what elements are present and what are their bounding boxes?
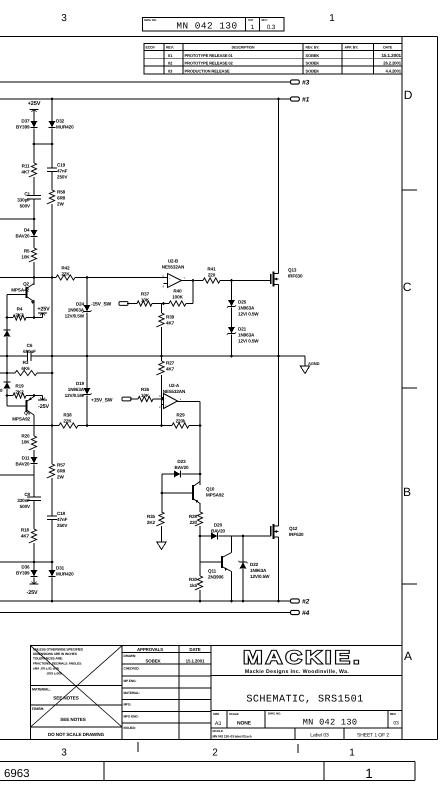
svg-text:±NA .XX ±.01 ±NA: ±NA .XX ±.01 ±NA (33, 667, 60, 671)
svg-text:D: D (404, 88, 413, 102)
svg-text:10K: 10K (21, 440, 30, 445)
svg-text:1N963A: 1N963A (250, 568, 267, 573)
svg-text:AGND: AGND (308, 361, 320, 366)
svg-text:1N963A: 1N963A (238, 333, 255, 338)
svg-text:-25V: -25V (38, 404, 49, 410)
svg-text:Q11: Q11 (208, 569, 217, 574)
svg-text:R40: R40 (173, 289, 182, 294)
svg-text:-: - (169, 283, 170, 287)
svg-text:2K2: 2K2 (15, 390, 24, 395)
svg-text:A3: A3 (215, 721, 221, 727)
svg-text:SHEET 1 OF 2: SHEET 1 OF 2 (357, 733, 389, 739)
svg-text:01: 01 (168, 53, 173, 58)
svg-text:15.1.2001: 15.1.2001 (381, 53, 401, 58)
svg-text:NONE: NONE (237, 721, 252, 727)
svg-text:DATE: DATE (189, 647, 200, 652)
svg-text:REV:: REV: (262, 18, 268, 22)
svg-text:330pF: 330pF (17, 198, 30, 203)
svg-text:DATE: DATE (383, 46, 393, 50)
svg-text:R29: R29 (176, 413, 185, 418)
svg-text:D36: D36 (21, 565, 30, 570)
svg-text:MN 042 130–03 label 03.sch: MN 042 130–03 label 03.sch (213, 735, 252, 739)
svg-text:220: 220 (190, 520, 198, 525)
svg-text:220: 220 (208, 273, 216, 278)
svg-text:R36: R36 (141, 387, 150, 392)
svg-text:TOLERANCES ARE:: TOLERANCES ARE: (33, 656, 63, 660)
svg-text:2K2: 2K2 (147, 520, 156, 525)
svg-text:+: + (165, 404, 167, 408)
svg-text:R5: R5 (24, 249, 30, 254)
svg-text:22K: 22K (63, 419, 72, 424)
svg-text:PROTOTYPE RELEASE 01: PROTOTYPE RELEASE 01 (185, 53, 234, 58)
svg-text:2N3906: 2N3906 (208, 575, 224, 580)
svg-text:R20: R20 (21, 434, 30, 439)
svg-text:3: 3 (159, 394, 161, 398)
svg-text:MUR420: MUR420 (56, 572, 74, 577)
svg-text:C: C (403, 280, 412, 294)
svg-text:10K: 10K (141, 393, 150, 398)
svg-text:PROTOTYPE RELEASE 02: PROTOTYPE RELEASE 02 (185, 61, 234, 66)
svg-text:FRACTIONS: DECIMALS: ANGL: FRACTIONS: DECIMALS: ANGLES: (33, 662, 82, 666)
svg-text:C8: C8 (24, 492, 30, 497)
svg-text:D19: D19 (76, 381, 85, 386)
svg-text:SOBEK: SOBEK (145, 659, 161, 664)
svg-text:03: 03 (168, 68, 173, 73)
svg-text:SEE NOTES: SEE NOTES (53, 696, 78, 701)
svg-text:10K: 10K (141, 298, 150, 303)
svg-text:IRF630: IRF630 (289, 532, 304, 537)
svg-text:BY399: BY399 (16, 125, 30, 130)
svg-text:D20: D20 (214, 523, 223, 528)
svg-text:REV. BY:: REV. BY: (306, 46, 320, 50)
svg-text:A: A (404, 649, 412, 663)
svg-text:4K7: 4K7 (166, 367, 175, 372)
svg-text:1: 1 (349, 748, 355, 759)
svg-text:SCHEMATIC, SRS1501: SCHEMATIC, SRS1501 (246, 695, 363, 706)
svg-text:Q6: Q6 (24, 411, 30, 416)
svg-text:D24: D24 (76, 302, 85, 307)
svg-text:NE5532AN: NE5532AN (162, 265, 185, 270)
svg-text:+25V: +25V (28, 101, 41, 107)
svg-text:12V/0.5W: 12V/0.5W (65, 393, 85, 398)
svg-text:10K: 10K (21, 255, 30, 260)
svg-text:DO NOT SCALE DRAWING: DO NOT SCALE DRAWING (48, 732, 105, 737)
svg-text:R58: R58 (57, 190, 66, 195)
svg-text:#4: #4 (302, 610, 310, 617)
svg-text:MPSA92: MPSA92 (206, 493, 224, 498)
svg-text:0.3: 0.3 (267, 24, 276, 31)
svg-text:3: 3 (61, 13, 67, 24)
svg-text:R4: R4 (17, 307, 23, 312)
svg-text:MP ENG:: MP ENG: (124, 679, 137, 683)
svg-text:R11: R11 (22, 164, 30, 169)
svg-text:PRODUCTION RELEASE: PRODUCTION RELEASE (185, 68, 231, 73)
svg-text:6963: 6963 (4, 768, 30, 780)
svg-text:12V/0.5W: 12V/0.5W (250, 574, 270, 579)
svg-text:2: 2 (212, 748, 218, 759)
svg-text:REV.: REV. (390, 712, 396, 716)
svg-text:C1: C1 (24, 192, 30, 197)
svg-text:22K: 22K (61, 272, 70, 277)
svg-text:SOBEK: SOBEK (306, 68, 320, 73)
svg-text:BY399: BY399 (16, 571, 30, 576)
svg-text:REV:: REV: (166, 46, 174, 50)
svg-text:MPSA92: MPSA92 (12, 417, 30, 422)
svg-text:MN 042 130: MN 042 130 (303, 718, 358, 728)
svg-text:R27: R27 (166, 361, 175, 366)
svg-text:500V: 500V (20, 204, 31, 209)
svg-text:2: 2 (159, 405, 161, 409)
svg-text:D32: D32 (56, 119, 65, 124)
svg-text:680pF: 680pF (23, 349, 36, 354)
svg-text:1: 1 (180, 397, 182, 401)
svg-text:C18: C18 (57, 511, 66, 516)
svg-text:DIMENSIONS ARE IN INCHES: DIMENSIONS ARE IN INCHES (33, 652, 78, 656)
svg-text:MFG:: MFG: (124, 703, 132, 707)
svg-text:BAV20: BAV20 (16, 462, 31, 467)
svg-text:R3: R3 (23, 360, 29, 365)
svg-text:330nF: 330nF (17, 498, 30, 503)
svg-text:ECO#: ECO# (146, 46, 155, 50)
svg-text:DESCRIPTION: DESCRIPTION (232, 46, 255, 50)
svg-text:MATERIAL:: MATERIAL: (32, 688, 51, 692)
svg-text:Mackie Designs Inc. Woodinvi: Mackie Designs Inc. Woodinville, Wa. (245, 669, 349, 675)
svg-text:MATERIAL:: MATERIAL: (124, 691, 140, 695)
svg-text:+25V: +25V (37, 307, 50, 313)
svg-text:R19: R19 (15, 384, 24, 389)
svg-text:250V: 250V (57, 175, 68, 180)
svg-text:Label 03: Label 03 (310, 733, 329, 739)
svg-text:SEE NOTES: SEE NOTES (60, 717, 85, 722)
svg-text:UNLESS OTHERWISE SPECIFIED: UNLESS OTHERWISE SPECIFIED (33, 648, 84, 652)
svg-text:500V: 500V (20, 504, 31, 509)
svg-text:Q10: Q10 (206, 487, 215, 492)
svg-text:-: - (165, 396, 166, 400)
svg-text:0: 0 (0, 388, 3, 393)
svg-text:D11: D11 (22, 456, 30, 461)
svg-text:BAV20: BAV20 (175, 465, 190, 470)
svg-text:03: 03 (393, 721, 399, 727)
svg-text:4.4.2001: 4.4.2001 (385, 68, 401, 73)
svg-text:4K7: 4K7 (166, 321, 175, 326)
svg-text:#3: #3 (302, 80, 310, 87)
svg-text:1k5: 1k5 (190, 583, 198, 588)
svg-text:D22: D22 (250, 562, 259, 567)
svg-text:220k: 220k (176, 419, 186, 424)
svg-text:DRAWN:: DRAWN: (124, 654, 137, 658)
svg-text:BAV20: BAV20 (16, 234, 31, 239)
svg-text:Q2: Q2 (23, 282, 29, 287)
svg-text:#1: #1 (302, 97, 310, 104)
svg-text:SCALE:: SCALE: (229, 712, 239, 716)
svg-text:IRF630: IRF630 (288, 274, 303, 279)
svg-text:4K7: 4K7 (21, 170, 30, 175)
svg-text:1: 1 (365, 766, 372, 781)
svg-text:U2-A: U2-A (169, 383, 180, 388)
svg-text:MFG ENG:: MFG ENG: (124, 715, 139, 719)
svg-text:#2: #2 (302, 599, 310, 606)
svg-text:R38: R38 (63, 413, 72, 418)
svg-text:NE5532AN: NE5532AN (163, 389, 186, 394)
svg-text:B: B (403, 485, 411, 499)
svg-text:SHT: SHT (248, 18, 254, 22)
svg-text:2K2: 2K2 (15, 313, 24, 318)
svg-text:BAV20: BAV20 (211, 529, 226, 534)
svg-text:R39: R39 (166, 315, 175, 320)
svg-text:12V/ 0.5W: 12V/ 0.5W (238, 339, 259, 344)
svg-text:Q13: Q13 (288, 268, 297, 273)
svg-text:1N963A: 1N963A (68, 387, 85, 392)
svg-text:02: 02 (168, 61, 173, 66)
svg-text:12V/ 0.5W: 12V/ 0.5W (238, 312, 259, 317)
svg-text:D25: D25 (238, 300, 247, 305)
svg-text:SIZE: SIZE (213, 712, 219, 716)
svg-text:47nF: 47nF (57, 169, 68, 174)
svg-text:SOBEK: SOBEK (306, 61, 320, 66)
svg-text:APP. BY:: APP. BY: (345, 46, 359, 50)
svg-text:R18: R18 (21, 528, 30, 533)
svg-text:R42: R42 (61, 266, 70, 271)
svg-text:6K6: 6K6 (21, 366, 30, 371)
svg-text:R57: R57 (57, 463, 66, 468)
svg-text:-15V_SW: -15V_SW (91, 302, 111, 308)
svg-text:15.1.2001: 15.1.2001 (186, 659, 205, 664)
svg-text:MPSA42: MPSA42 (11, 288, 29, 293)
svg-text:250V: 250V (57, 523, 68, 528)
svg-text:7: 7 (184, 276, 186, 280)
svg-text:R30: R30 (189, 577, 198, 582)
svg-text:DWG. NO.: DWG. NO. (144, 18, 157, 22)
svg-text:.XXX ±.005: .XXX ±.005 (46, 672, 62, 676)
svg-text:1N963A: 1N963A (238, 306, 255, 311)
svg-text:26.2.2001: 26.2.2001 (383, 61, 402, 66)
svg-text:1: 1 (251, 24, 255, 31)
svg-text:+: + (169, 276, 171, 280)
svg-text:MN FILE:: MN FILE: (213, 730, 224, 733)
svg-text:C6: C6 (27, 343, 33, 348)
svg-text:D31: D31 (56, 566, 65, 571)
svg-text:R35: R35 (147, 514, 156, 519)
svg-text:D4: D4 (24, 228, 30, 233)
svg-text:6R8: 6R8 (57, 196, 66, 201)
svg-text:U2-B: U2-B (168, 259, 179, 264)
svg-text:12V/0.5W: 12V/0.5W (65, 314, 85, 319)
svg-text:1: 1 (329, 13, 335, 24)
svg-text:3: 3 (61, 748, 67, 759)
svg-text:FINISH:: FINISH: (32, 707, 44, 711)
svg-text:MACKIE.: MACKIE. (243, 647, 363, 668)
svg-text:2W: 2W (57, 475, 64, 480)
svg-text:R28: R28 (189, 514, 198, 519)
svg-text:MN 042 130: MN 042 130 (176, 21, 237, 32)
svg-text:CHECKED:: CHECKED: (124, 667, 140, 671)
svg-text:6R8: 6R8 (57, 469, 66, 474)
svg-text:4K7: 4K7 (21, 534, 30, 539)
svg-text:MUR420: MUR420 (56, 125, 74, 130)
svg-text:2W: 2W (57, 202, 64, 207)
svg-text:ISSUED:: ISSUED: (124, 726, 136, 730)
svg-text:-25V: -25V (27, 590, 38, 596)
svg-text:R37: R37 (141, 292, 150, 297)
svg-text:Q12: Q12 (289, 526, 298, 531)
svg-text:+15V_SW: +15V_SW (91, 398, 113, 404)
svg-text:R41: R41 (207, 267, 216, 272)
svg-text:SOBEK: SOBEK (306, 53, 320, 58)
svg-text:C19: C19 (57, 163, 66, 168)
svg-text:1N963A: 1N963A (68, 308, 85, 313)
svg-text:APPROVALS: APPROVALS (137, 647, 163, 652)
svg-text:D37: D37 (21, 119, 30, 124)
svg-text:100K: 100K (172, 295, 183, 300)
svg-text:D21: D21 (238, 327, 247, 332)
svg-text:6: 6 (163, 285, 165, 289)
svg-text:D23: D23 (177, 459, 186, 464)
svg-text:47nF: 47nF (57, 517, 68, 522)
svg-text:DWG. NO.: DWG. NO. (268, 712, 281, 716)
